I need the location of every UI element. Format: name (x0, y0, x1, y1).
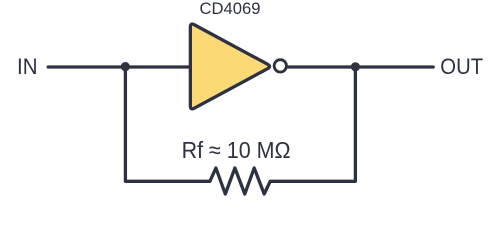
junction node B (output net) (351, 62, 360, 71)
svg-text:CD4069: CD4069 (200, 0, 261, 18)
svg-text:IN: IN (17, 54, 38, 79)
wire output (bubble to OUT) (289, 65, 434, 68)
inverter U1 triangle CD4069 (190, 24, 269, 109)
junction node A (input net) (121, 62, 130, 71)
inverter output bubble (274, 60, 286, 72)
wire feedback loop with resistor body path (125, 67, 355, 194)
svg-text:Rf ≈ 10 MΩ: Rf ≈ 10 MΩ (182, 137, 291, 163)
wire input (IN to inverter input) (48, 65, 189, 68)
svg-text:OUT: OUT (440, 54, 483, 79)
